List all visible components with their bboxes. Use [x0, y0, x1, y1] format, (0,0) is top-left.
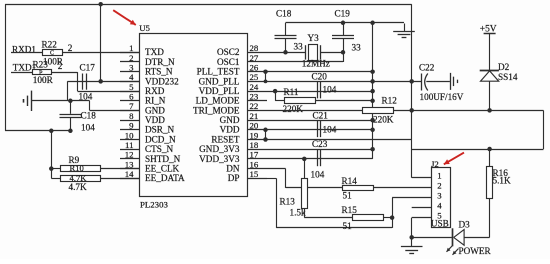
svg-text:SS14: SS14 — [498, 72, 518, 82]
svg-text:C20: C20 — [312, 71, 328, 81]
svg-text:100UF/16V: 100UF/16V — [420, 92, 464, 102]
svg-text:25: 25 — [250, 72, 259, 82]
svg-text:VDD_PLL: VDD_PLL — [199, 86, 240, 96]
svg-text:R13: R13 — [280, 196, 296, 206]
svg-text:3: 3 — [437, 191, 442, 201]
svg-text:EE_CLK: EE_CLK — [145, 164, 180, 174]
svg-text:R12: R12 — [382, 96, 398, 106]
svg-text:220K: 220K — [283, 104, 304, 114]
svg-text:104: 104 — [311, 170, 325, 180]
svg-text:51: 51 — [343, 221, 353, 231]
svg-text:DN: DN — [226, 164, 240, 174]
svg-text:TXD: TXD — [145, 47, 164, 57]
svg-text:J2: J2 — [431, 159, 439, 169]
svg-text:220K: 220K — [373, 114, 394, 124]
svg-text:R11: R11 — [284, 87, 299, 97]
svg-text:51: 51 — [343, 191, 353, 201]
svg-text:13: 13 — [125, 159, 134, 169]
svg-text:D2: D2 — [498, 62, 510, 72]
svg-text:VDD: VDD — [145, 115, 165, 125]
svg-text:19: 19 — [250, 130, 259, 140]
svg-text:C21: C21 — [313, 111, 329, 121]
svg-text:GND_3V3: GND_3V3 — [199, 144, 240, 154]
svg-text:24: 24 — [250, 82, 259, 92]
svg-text:R15: R15 — [342, 205, 358, 215]
svg-text:7: 7 — [129, 101, 134, 111]
svg-text:C19: C19 — [335, 9, 351, 19]
svg-text:100R: 100R — [33, 75, 54, 85]
svg-text:6: 6 — [129, 92, 134, 102]
svg-text:USB: USB — [431, 218, 449, 228]
svg-text:DCD_N: DCD_N — [145, 134, 176, 144]
svg-text:15: 15 — [250, 169, 259, 179]
svg-text:R22: R22 — [42, 39, 58, 49]
svg-text:VDD_3V3: VDD_3V3 — [199, 154, 240, 164]
svg-text:2: 2 — [129, 53, 133, 63]
svg-text:RI_N: RI_N — [145, 96, 166, 106]
svg-text:27: 27 — [250, 53, 259, 63]
svg-text:C22: C22 — [419, 62, 435, 72]
svg-text:RESET: RESET — [211, 134, 239, 144]
svg-text:R14: R14 — [342, 176, 358, 186]
svg-text:28: 28 — [250, 43, 259, 53]
svg-text:C23: C23 — [312, 139, 328, 149]
svg-text:12: 12 — [125, 150, 134, 160]
svg-text:DSR_N: DSR_N — [145, 125, 174, 135]
svg-text:21: 21 — [250, 111, 259, 121]
svg-text:OSC1: OSC1 — [217, 57, 240, 67]
svg-text:VDD: VDD — [220, 125, 240, 135]
svg-text:U5: U5 — [139, 23, 150, 33]
svg-text:DTR_N: DTR_N — [145, 57, 175, 67]
svg-text:3: 3 — [129, 63, 134, 73]
svg-text:33: 33 — [352, 42, 362, 52]
svg-text:R10: R10 — [70, 163, 84, 173]
svg-text:C18: C18 — [276, 9, 292, 19]
svg-text:22: 22 — [250, 101, 259, 111]
svg-text:RTS_N: RTS_N — [145, 67, 173, 77]
svg-text:RXD: RXD — [145, 86, 165, 96]
svg-text:104: 104 — [79, 91, 93, 101]
svg-text:104: 104 — [323, 85, 337, 95]
svg-text:1.5k: 1.5k — [290, 207, 306, 217]
svg-text:EE_DATA: EE_DATA — [145, 173, 185, 183]
svg-text:GND: GND — [145, 105, 165, 115]
svg-text:2: 2 — [58, 61, 63, 71]
svg-text:1: 1 — [437, 171, 441, 181]
svg-text:PLL_TEST: PLL_TEST — [197, 67, 240, 77]
svg-text:8: 8 — [129, 111, 134, 121]
svg-text:GND: GND — [220, 115, 240, 125]
svg-text:LD_MODE: LD_MODE — [196, 96, 240, 106]
svg-text:Y3: Y3 — [308, 33, 320, 43]
svg-text:TRI_MODE: TRI_MODE — [193, 105, 240, 115]
svg-text:20: 20 — [250, 121, 259, 131]
svg-text:D3: D3 — [459, 220, 471, 230]
svg-text:5.1K: 5.1K — [493, 176, 511, 186]
svg-text:4: 4 — [437, 201, 442, 211]
svg-text:16: 16 — [250, 159, 259, 169]
svg-text:17: 17 — [250, 150, 259, 160]
svg-text:12MHz: 12MHz — [302, 58, 330, 68]
svg-text:2: 2 — [437, 181, 441, 191]
svg-text:R23: R23 — [33, 60, 49, 70]
svg-text:VDD232: VDD232 — [145, 76, 179, 86]
svg-text:2: 2 — [68, 43, 73, 53]
svg-text:POWER: POWER — [459, 246, 492, 256]
svg-text:OSC2: OSC2 — [217, 47, 240, 57]
svg-text:1: 1 — [129, 43, 133, 53]
svg-text:PL2303: PL2303 — [140, 200, 168, 210]
svg-text:33: 33 — [294, 41, 304, 51]
svg-text:CTS_N: CTS_N — [145, 144, 173, 154]
svg-text:9: 9 — [129, 121, 134, 131]
svg-text:10: 10 — [125, 130, 134, 140]
svg-text:GND_PLL: GND_PLL — [199, 76, 240, 86]
svg-text:14: 14 — [125, 169, 134, 179]
svg-text:DP: DP — [228, 173, 240, 183]
svg-text:18: 18 — [250, 140, 259, 150]
svg-text:C17: C17 — [80, 62, 96, 72]
svg-text:23: 23 — [250, 92, 259, 102]
svg-text:4: 4 — [129, 72, 134, 82]
svg-text:5: 5 — [129, 82, 134, 92]
svg-text:C18: C18 — [81, 111, 97, 121]
svg-text:SHTD_N: SHTD_N — [145, 154, 181, 164]
svg-text:26: 26 — [250, 63, 259, 73]
svg-text:4.7K: 4.7K — [69, 182, 87, 192]
svg-text:104: 104 — [81, 122, 95, 132]
svg-text:11: 11 — [125, 140, 133, 150]
